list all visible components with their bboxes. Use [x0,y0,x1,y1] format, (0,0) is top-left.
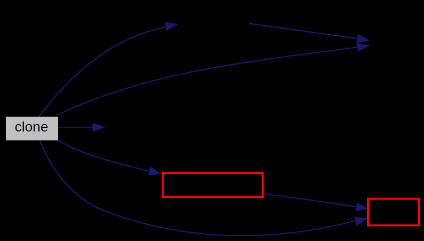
wire edge clone to node C (short horizontal) [59,126,93,128]
arrowhead red box 1 to red box 2 (upper) [356,203,370,212]
arrowhead clone to node A [165,22,179,31]
node red box 1 [163,173,263,197]
node clone (gray box) [6,117,58,141]
arrowhead clone to node B (lower) [357,43,371,52]
arrowhead clone to node C [93,123,106,132]
wire edge clone to node A (top arc) [39,27,166,117]
wire edge clone to red box 1 [58,140,149,171]
node red box 2 [368,199,419,226]
wire edge clone to node B (long flat arc) [58,47,358,115]
wire edge clone to red box 2 (bottom arc) [40,141,355,236]
wire edge red box 1 to red box 2 [264,194,356,207]
wire edge node A to node B (straight) [249,23,357,38]
arrowhead clone to red box 2 (lower) [354,217,368,226]
arrowhead clone to red box 1 [148,167,162,176]
arrowhead node A to node B (upper) [357,34,371,43]
svg-text:clone: clone [15,118,49,134]
